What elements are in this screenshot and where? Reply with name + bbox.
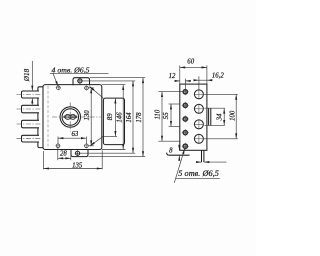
svg-text:55: 55 (163, 112, 170, 119)
svg-text:135: 135 (72, 163, 83, 170)
svg-text:89: 89 (107, 113, 114, 120)
svg-text:16,2: 16,2 (212, 72, 224, 79)
svg-text:60: 60 (187, 59, 194, 66)
svg-text:110: 110 (155, 109, 162, 119)
svg-text:Ø18: Ø18 (23, 68, 31, 82)
svg-text:100: 100 (230, 110, 237, 121)
svg-text:164: 164 (126, 112, 133, 123)
svg-text:63: 63 (72, 131, 79, 138)
svg-text:34: 34 (217, 113, 224, 121)
svg-text:5 отв. Ø6,5: 5 отв. Ø6,5 (178, 169, 219, 178)
svg-text:12: 12 (169, 73, 176, 80)
svg-text:130: 130 (84, 110, 91, 121)
svg-text:146: 146 (117, 112, 124, 123)
svg-text:28: 28 (60, 151, 67, 158)
svg-text:8: 8 (169, 148, 173, 155)
svg-text:178: 178 (136, 112, 143, 123)
